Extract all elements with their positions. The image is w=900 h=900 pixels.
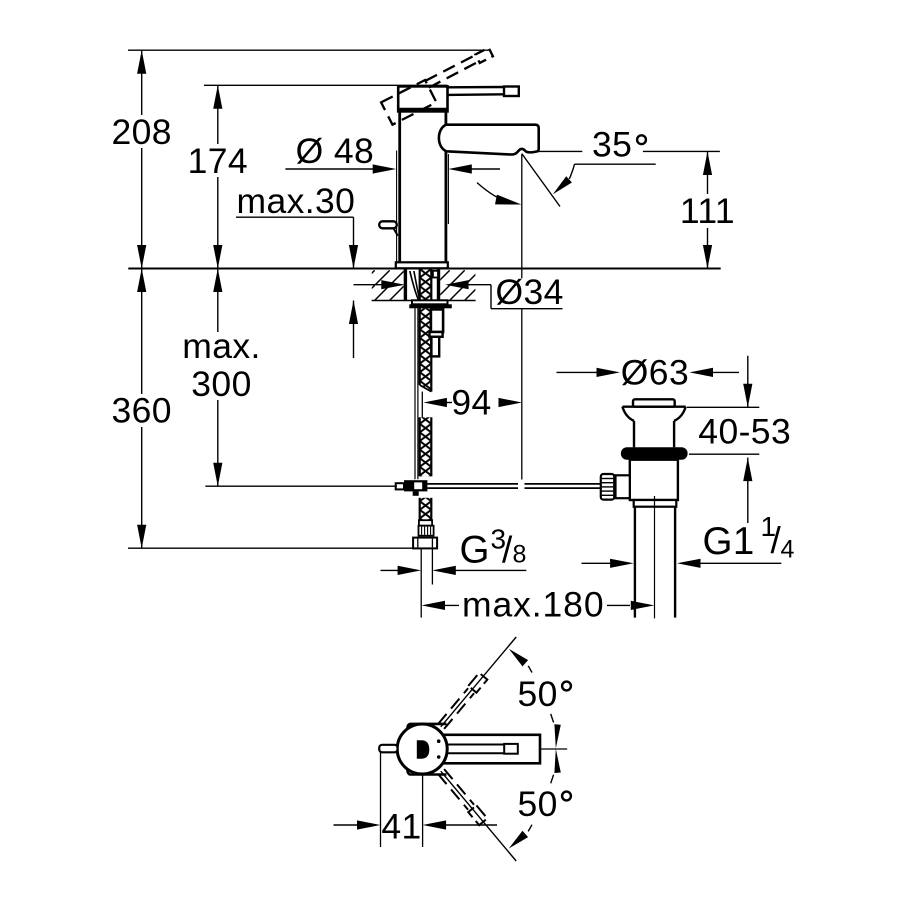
- drain centerline: [654, 496, 656, 618]
- top view faucet body circle: [397, 724, 447, 774]
- head bottom thick band: [398, 108, 448, 113]
- svg-text:40-53: 40-53: [698, 412, 791, 452]
- cartridge head: [398, 86, 447, 111]
- svg-text:/: /: [502, 530, 513, 571]
- swivel upper diagonal line: [441, 637, 516, 727]
- spout outline: [439, 125, 539, 155]
- top view handle outline: [441, 735, 540, 764]
- hose edges: [419, 269, 421, 385]
- svg-text:Ø 48: Ø 48: [296, 131, 375, 171]
- pop-up valve cap: [633, 399, 675, 406]
- braided hose segment 1: [420, 269, 432, 300]
- rubber seal ring: [621, 447, 688, 459]
- dimension 94: [423, 398, 447, 407]
- 35 deg diagonal: [522, 154, 560, 207]
- second supply tube: [414, 308, 416, 479]
- rod T-fitting left piece: [396, 483, 404, 489]
- solid lever handle: [448, 86, 505, 89]
- spout outlet level line: [539, 150, 583, 152]
- svg-text:Ø34: Ø34: [496, 272, 564, 312]
- pull rod housing step: [430, 332, 443, 337]
- swivel upper dashed handle: [437, 673, 487, 730]
- drain pull rod knob: [379, 221, 397, 228]
- horizontal linkage rod segment 1: [427, 483, 518, 485]
- pull rod diagonal: [394, 229, 398, 236]
- 35 deg leader: [575, 163, 656, 165]
- counter hatching right: [440, 270, 475, 300]
- svg-text:94: 94: [451, 383, 491, 423]
- thin hose tube line: [421, 392, 423, 418]
- svg-text:111: 111: [680, 191, 735, 231]
- braided hose segment 4: [420, 498, 432, 520]
- 50 deg upper leader arrows: [509, 649, 528, 667]
- dimension 40-53: [747, 356, 749, 408]
- hose curve in shank: [410, 271, 419, 300]
- 50 deg lower leader arrows: [509, 831, 528, 849]
- swivel lower diagonal line: [441, 771, 516, 861]
- counter hatching left: [372, 270, 404, 300]
- svg-text:300: 300: [191, 364, 251, 404]
- svg-text:41: 41: [381, 806, 421, 846]
- 208 extent top line: [128, 49, 489, 51]
- svg-text:G1: G1: [703, 520, 755, 563]
- svg-text:max.30: max.30: [237, 181, 356, 221]
- pull rod housing upper: [431, 309, 443, 332]
- hose connector sleeve: [419, 520, 432, 526]
- svg-text:208: 208: [111, 112, 171, 152]
- faucet base flange: [396, 262, 448, 268]
- swivel lower dashed handle: [437, 768, 487, 825]
- valve ring nut: [634, 500, 677, 507]
- top view handle slot: [446, 744, 504, 746]
- valve body: [630, 460, 678, 500]
- 360 bottom extension line: [128, 547, 434, 549]
- dimension G1 1/4: [582, 562, 615, 564]
- tailpipe walls G1 1/4: [634, 507, 636, 618]
- max.300 extension line: [205, 485, 397, 487]
- braided hose segment 3: [420, 417, 432, 476]
- mounting shank left wall: [404, 269, 407, 300]
- pull rod housing lower: [431, 337, 439, 357]
- dimension 360: [141, 269, 143, 549]
- braided hose segment 2: [420, 308, 432, 391]
- svg-text:50: 50: [518, 784, 558, 824]
- svg-text:G: G: [460, 529, 490, 572]
- G3/8 thread pipe / extension lines: [420, 548, 422, 617]
- horizontal linkage rod segment 2: [525, 483, 602, 485]
- top view pull rod: [379, 745, 397, 753]
- svg-text:4: 4: [781, 535, 795, 563]
- dimension 208: [141, 50, 143, 268]
- dimension max.300: [217, 269, 219, 487]
- svg-text:8: 8: [513, 541, 527, 569]
- top view base plate edges: [407, 724, 446, 729]
- svg-text:35: 35: [592, 125, 632, 165]
- dimension O34: [354, 284, 386, 286]
- bell cylinder walls: [633, 421, 635, 447]
- hose knurled sleeve: [419, 526, 434, 536]
- dimension 111: [707, 152, 709, 269]
- shank inner detail: [433, 271, 438, 278]
- spout swivel arc: [477, 183, 509, 203]
- bell right side: [674, 407, 686, 421]
- 174 extent line: [204, 84, 448, 86]
- outlet centerline upper: [521, 154, 523, 278]
- dimension 174: [217, 85, 219, 268]
- dimension max.180: [422, 601, 446, 610]
- dimension G3/8: [381, 569, 403, 571]
- top view cartridge D: [417, 740, 430, 758]
- top view screw dots: [437, 739, 441, 743]
- lever end cap: [504, 87, 519, 97]
- top view handle centerline: [540, 748, 568, 750]
- O48 extension lines: [396, 151, 398, 262]
- counter deck line: [128, 268, 720, 270]
- counter bottom line: [372, 300, 476, 302]
- svg-text:360: 360: [111, 391, 171, 431]
- bell left side: [622, 407, 634, 421]
- valve knurled knob: [601, 474, 614, 500]
- svg-text:Ø63: Ø63: [621, 353, 689, 393]
- mounting shank right wall: [437, 269, 440, 300]
- valve bell top flange: [622, 406, 685, 408]
- shank locknut lower: [409, 304, 452, 308]
- G3/8 nut: [413, 538, 437, 549]
- dimension 41: [380, 753, 382, 847]
- outlet centerline lower: [521, 309, 523, 480]
- rod T-fitting tab: [413, 491, 419, 495]
- shank locknut upper: [412, 300, 448, 304]
- faucet body right edge: [444, 112, 447, 263]
- faucet body left edge: [398, 112, 401, 263]
- dashed lever raised position: [381, 48, 500, 125]
- svg-text:50: 50: [518, 674, 558, 714]
- svg-text:max.180: max.180: [462, 585, 604, 625]
- svg-text:174: 174: [188, 141, 248, 181]
- valve actuator stub: [616, 475, 630, 498]
- rod T-fitting body: [404, 480, 427, 491]
- dimension O63: [557, 371, 601, 373]
- svg-text:max.: max.: [182, 326, 261, 366]
